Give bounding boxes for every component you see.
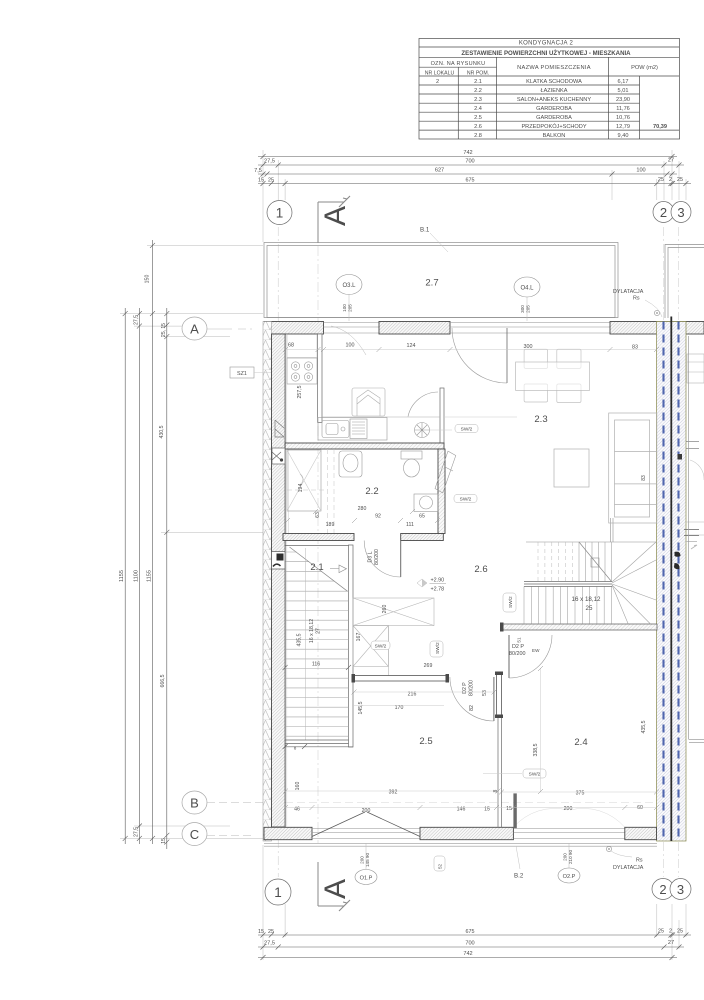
bathroom dashed soffit lines (287, 449, 334, 533)
staircase 2.1 top edge (285, 545, 348, 547)
svg-text:GARDEROBA: GARDEROBA (536, 106, 572, 112)
svg-text:675: 675 (466, 929, 475, 935)
svg-text:1: 1 (276, 205, 284, 220)
svg-text:1100: 1100 (133, 570, 139, 582)
grid bubble B (182, 791, 656, 814)
svg-text:2: 2 (669, 929, 672, 935)
door to 2.5 leaf and swing (450, 677, 494, 721)
svg-text:257,5: 257,5 (297, 385, 303, 398)
svg-text:92: 92 (375, 514, 381, 520)
svg-text:ZESTAWIENIE POWIERZCHNI UŻYTKO: ZESTAWIENIE POWIERZCHNI UŻYTKOWEJ - MIES… (461, 50, 631, 57)
toilet (401, 451, 422, 477)
svg-text:205: 205 (526, 305, 531, 313)
svg-text:27: 27 (316, 628, 322, 634)
svg-text:100: 100 (346, 343, 355, 349)
room 2.5 top wall (352, 674, 450, 683)
top exterior wall segment window 124 (379, 322, 450, 335)
meter box on wall (272, 552, 286, 570)
kitchen appliance (fridge) (350, 419, 367, 439)
svg-text:216: 216 (408, 692, 417, 698)
svg-text:+2.90: +2.90 (431, 578, 445, 584)
section line A-A bottom marker (318, 862, 352, 911)
svg-text:1: 1 (274, 885, 282, 900)
section line A-A top marker (318, 196, 352, 243)
svg-text:Rs: Rs (636, 858, 643, 864)
svg-text:70,39: 70,39 (653, 124, 667, 130)
window tag O4.L (514, 277, 540, 321)
svg-text:2: 2 (660, 205, 667, 220)
bathroom bottom wall right segment (401, 534, 444, 541)
svg-text:194: 194 (298, 484, 304, 493)
top exterior wall segment left (264, 322, 324, 335)
svg-text:25: 25 (268, 178, 274, 184)
bottom dim line 15/25/675/25/2/25 (258, 933, 691, 938)
svg-text:16 x 18,12: 16 x 18,12 (309, 619, 315, 643)
svg-text:10,76: 10,76 (616, 115, 630, 121)
wall tags SW/2 (371, 425, 546, 779)
svg-text:80/200: 80/200 (374, 549, 380, 565)
svg-text:9,40: 9,40 (618, 133, 629, 139)
svg-text:2.4: 2.4 (474, 106, 482, 112)
washing machine (414, 494, 438, 512)
void over stair (crossed) (353, 598, 434, 626)
svg-text:145,5: 145,5 (358, 701, 364, 714)
svg-text:27,5: 27,5 (133, 827, 139, 837)
svg-text:D2 P: D2 P (512, 644, 524, 650)
bottom exterior wall segment middle (420, 827, 513, 839)
svg-text:200: 200 (360, 856, 365, 864)
staircase 2.1 right wall (349, 545, 354, 747)
grid bubble 3 top (671, 202, 691, 223)
svg-text:5,01: 5,01 (618, 88, 629, 94)
floor zone line living room (444, 416, 517, 418)
svg-text:51: 51 (517, 637, 522, 643)
neighbour wall fragment lower right (689, 336, 704, 743)
svg-text:627: 627 (435, 168, 444, 174)
svg-text:D3 L: D3 L (368, 551, 374, 562)
svg-text:15: 15 (161, 838, 167, 844)
balcony B.1 label (420, 227, 448, 253)
bathroom bottom wall left segment (283, 534, 354, 541)
svg-text:25: 25 (268, 929, 274, 935)
svg-text:SW/2: SW/2 (529, 772, 541, 778)
svg-text:145 90: 145 90 (365, 853, 370, 867)
grid line 2 dashes above/below wall (664, 227, 679, 877)
left exterior wall (272, 334, 286, 827)
svg-text:435,5: 435,5 (297, 633, 303, 646)
svg-text:+2.78: +2.78 (431, 587, 445, 593)
staircase 2.1 treads (285, 591, 348, 736)
left dim line 1155 (outer) (123, 308, 128, 844)
leader for B.2 (516, 846, 520, 869)
svg-text:260: 260 (382, 605, 388, 614)
svg-text:205: 205 (348, 304, 353, 312)
kitchen stove (287, 358, 317, 384)
svg-text:210 90: 210 90 (568, 850, 573, 864)
svg-text:2.3: 2.3 (534, 414, 547, 425)
duct niche wall (440, 388, 444, 443)
svg-text:2.6: 2.6 (474, 564, 487, 575)
svg-text:27,5: 27,5 (264, 941, 275, 947)
svg-text:O4.L: O4.L (520, 286, 534, 292)
svg-text:160: 160 (295, 782, 301, 791)
svg-text:SZ1: SZ1 (237, 371, 247, 377)
top exterior wall segment right (610, 322, 704, 335)
left dim line 25,15/430,5/666,5/15 (164, 308, 169, 849)
svg-text:2.4: 2.4 (574, 737, 587, 748)
shower (287, 450, 321, 511)
niche boundary line (322, 416, 440, 418)
neighbour balcony railing right (665, 245, 704, 319)
svg-text:POW (m2): POW (m2) (631, 65, 658, 71)
svg-text:300: 300 (524, 344, 533, 350)
svg-text:O3.L: O3.L (342, 283, 356, 289)
svg-text:63: 63 (315, 512, 321, 518)
svg-text:16 x 18,12: 16 x 18,12 (572, 596, 601, 603)
svg-text:742: 742 (463, 150, 472, 156)
svg-text:NR LOKALU: NR LOKALU (425, 70, 455, 76)
top dimension extension lines (263, 150, 686, 242)
window 300 to balcony (450, 323, 610, 334)
left wall finish lines (287, 334, 289, 827)
extractor fan symbol (415, 423, 453, 438)
svg-text:Rs: Rs (633, 296, 640, 302)
wall tag SZ1 (230, 367, 271, 378)
svg-text:3: 3 (677, 882, 684, 897)
corridor void dims (356, 605, 432, 669)
svg-text:SW/2: SW/2 (508, 596, 514, 608)
dining chairs (524, 349, 581, 402)
grid bubble 1 top (267, 201, 292, 225)
kitchen counter with sink (318, 418, 387, 441)
svg-text:B.2: B.2 (514, 873, 524, 880)
svg-text:B: B (190, 795, 199, 810)
svg-text:170: 170 (395, 705, 404, 711)
kitchen corner marks (275, 420, 284, 437)
svg-text:6,17: 6,17 (618, 79, 629, 85)
svg-text:SW/2: SW/2 (461, 427, 473, 433)
svg-text:BALKON: BALKON (543, 133, 566, 139)
leader endpoint circle bottom (606, 846, 611, 851)
svg-text:2.1: 2.1 (474, 79, 482, 85)
svg-text:430,5: 430,5 (159, 425, 165, 438)
window tag O3.L (336, 275, 362, 322)
door D2 at stair tag (509, 637, 540, 657)
neighbour unit fragment mid right (684, 530, 699, 550)
window O1.P swing lines (312, 812, 420, 837)
svg-text:2.5: 2.5 (474, 115, 482, 121)
roller tag at O1.P (434, 856, 445, 871)
stair 2.6 bottom wall (500, 623, 657, 632)
svg-text:60: 60 (637, 805, 643, 811)
staircase 2.1 break line (290, 547, 348, 591)
grid bubble 2 bottom (652, 879, 674, 900)
void lower part (crossed) (353, 626, 388, 681)
svg-text:666,5: 666,5 (160, 674, 166, 687)
svg-text:SW/2: SW/2 (460, 497, 472, 503)
svg-text:2.5: 2.5 (419, 736, 432, 747)
svg-text:1155: 1155 (147, 570, 153, 582)
svg-text:3: 3 (677, 205, 684, 220)
wall fixture bathroom (272, 448, 285, 464)
coffee table (554, 449, 589, 487)
svg-text:675: 675 (466, 178, 475, 184)
svg-text:SW/2: SW/2 (435, 642, 441, 654)
room area table (419, 39, 680, 140)
svg-text:8: 8 (294, 746, 297, 751)
svg-text:C: C (190, 827, 199, 842)
svg-text:15: 15 (258, 929, 264, 935)
interior dim lines room 2.5/2.4 (285, 668, 656, 808)
section line A-A through plan (317, 246, 319, 843)
svg-text:392: 392 (389, 790, 398, 796)
bathroom right wall (438, 449, 445, 534)
grid line 1 (dash-dot vertical) (277, 227, 279, 877)
svg-text:2.6: 2.6 (474, 124, 482, 130)
window O2.P swing arcs (513, 808, 624, 827)
svg-text:SW/2: SW/2 (375, 644, 387, 650)
kitchen block right wall (318, 334, 322, 422)
svg-text:B.1: B.1 (420, 227, 430, 234)
door D2 at stair leaf and swing (509, 635, 552, 678)
svg-text:25, 15: 25, 15 (161, 323, 167, 337)
svg-text:100: 100 (636, 168, 645, 174)
svg-text:GARDEROBA: GARDEROBA (536, 115, 572, 121)
svg-text:NR POM.: NR POM. (467, 70, 489, 76)
svg-text:DYLATACJA: DYLATACJA (613, 865, 644, 871)
balcony B.2 slab (264, 844, 657, 847)
room 2.5 dims (294, 692, 490, 815)
grid bubble 2 top (653, 202, 674, 223)
svg-text:2: 2 (659, 882, 666, 897)
svg-text:150: 150 (145, 275, 151, 284)
svg-text:435,5: 435,5 (641, 720, 647, 733)
svg-text:100: 100 (342, 304, 347, 312)
staircase 2.1 bottom edge (285, 740, 353, 747)
svg-text:A: A (190, 321, 199, 336)
svg-text:23,90: 23,90 (616, 97, 630, 103)
svg-text:2.1: 2.1 (310, 562, 323, 573)
window tag O1.P (355, 843, 377, 885)
svg-text:52: 52 (438, 863, 443, 869)
svg-text:PRZEDPOKÓJ+SCHODY: PRZEDPOKÓJ+SCHODY (521, 123, 586, 130)
svg-text:742: 742 (463, 951, 472, 957)
svg-text:OZN. NA RYSUNKU: OZN. NA RYSUNKU (431, 61, 486, 67)
svg-text:O2.P: O2.P (563, 874, 576, 880)
svg-text:2.8: 2.8 (474, 133, 482, 139)
level marks (417, 578, 446, 593)
balcony door swing (331, 326, 366, 355)
staircase 2.1 walking line (305, 548, 307, 740)
staircase 2.6 side lines (526, 518, 657, 542)
svg-text:1155: 1155 (119, 570, 125, 582)
svg-text:DYLATACJA: DYLATACJA (613, 289, 644, 295)
svg-text:ŁAZIENKA: ŁAZIENKA (540, 88, 567, 94)
window O2.P opening (513, 829, 624, 839)
room 2.4 dims (493, 720, 647, 812)
svg-text:2.2: 2.2 (365, 486, 378, 497)
svg-text:KONDYGNACJA 2: KONDYGNACJA 2 (519, 41, 574, 47)
svg-text:53: 53 (482, 690, 488, 696)
dining table (516, 362, 590, 390)
svg-text:25: 25 (658, 177, 664, 183)
svg-text:A: A (319, 879, 352, 899)
svg-text:15: 15 (506, 806, 512, 812)
balcony door 100 (top wall opening) (324, 323, 380, 334)
svg-text:15: 15 (258, 178, 264, 184)
TV panel on wall (435, 451, 456, 494)
svg-text:83: 83 (641, 475, 647, 481)
svg-text:338,5: 338,5 (533, 743, 539, 756)
interior dim line under top wall (283, 347, 659, 352)
window tag O2.P (558, 843, 580, 883)
kitchen tall cabinet (287, 335, 317, 358)
svg-text:SALON+ANEKS KUCHENNY: SALON+ANEKS KUCHENNY (517, 97, 591, 103)
svg-text:83: 83 (632, 345, 638, 351)
staircase 2.6 upper treads solid (579, 542, 612, 582)
window O1.P opening (312, 829, 420, 839)
bathroom sink (339, 451, 362, 477)
grid bubble C (182, 823, 252, 846)
svg-text:7,5: 7,5 (254, 168, 262, 174)
staircase 2.6 break diagonal (579, 542, 612, 582)
svg-text:116: 116 (312, 662, 320, 668)
bottom dim line 742 (258, 955, 677, 960)
table header text (425, 41, 658, 77)
niche door arc (408, 392, 438, 417)
svg-text:27,5: 27,5 (264, 159, 275, 165)
svg-text:82: 82 (469, 705, 475, 711)
staircase 2.6 winder treads (612, 542, 656, 624)
left dim line 27,5/1100/27,5 (137, 308, 142, 844)
svg-text:700: 700 (465, 159, 474, 165)
svg-text:111: 111 (406, 522, 414, 528)
svg-text:2.2: 2.2 (474, 88, 482, 94)
bottom dimension extension lines (263, 845, 686, 960)
grid bubble A (182, 317, 252, 340)
stair 2.1 width dim ticks (283, 665, 351, 749)
interior top dim labels (288, 343, 638, 351)
staircase 2.1 labels (294, 562, 324, 751)
svg-text:KLATKA SCHODOWA: KLATKA SCHODOWA (526, 79, 582, 85)
bathroom top wall (285, 443, 444, 449)
staircase 2.6 lower treads (524, 587, 612, 624)
hinge dot on expansion joint (678, 454, 683, 460)
bathroom dim texts (298, 484, 425, 528)
top dimension line 15/25/675/25/2/25 (258, 181, 691, 186)
svg-text:2.7: 2.7 (425, 278, 438, 289)
svg-text:68: 68 (288, 343, 294, 349)
partition wall 2.5/2.4 (495, 672, 503, 828)
left dimension extension lines (120, 245, 283, 838)
svg-text:280: 280 (358, 506, 367, 512)
svg-text:12,79: 12,79 (616, 124, 630, 130)
svg-text:NAZWA POMIESZCZENIA: NAZWA POMIESZCZENIA (517, 65, 591, 71)
svg-text:300: 300 (520, 305, 525, 313)
door D3 tag (368, 549, 381, 565)
svg-text:124: 124 (407, 343, 416, 349)
svg-text:2.3: 2.3 (474, 97, 482, 103)
svg-text:A: A (319, 206, 352, 226)
balcony B.1 railing (264, 243, 618, 318)
bottom dylatacja note (611, 851, 644, 871)
svg-text:200: 200 (563, 853, 568, 861)
svg-text:25: 25 (677, 929, 683, 935)
svg-text:375: 375 (576, 791, 585, 797)
svg-text:200: 200 (362, 808, 371, 814)
svg-text:2: 2 (436, 79, 439, 85)
svg-text:EW: EW (532, 648, 540, 653)
svg-text:2: 2 (669, 177, 672, 183)
bottom dim line 27,5/700/27 (258, 945, 684, 950)
bottom exterior wall segment right (625, 827, 657, 839)
svg-text:65: 65 (419, 514, 425, 520)
staircase 2.1 direction arrow (330, 565, 347, 573)
right exterior wall with expansion joint (657, 317, 687, 842)
svg-text:25: 25 (677, 177, 683, 183)
svg-text:27: 27 (668, 940, 674, 946)
leader endpoint circle top (654, 310, 659, 315)
top dimension line 7,5 / 627 / 100 (258, 172, 677, 177)
svg-text:27,5: 27,5 (133, 315, 139, 325)
svg-text:700: 700 (465, 941, 474, 947)
neighbour door handle marks (674, 552, 681, 569)
bathroom dim ticks (285, 509, 440, 523)
svg-text:O1.P: O1.P (360, 876, 373, 882)
grid bubble 1 bottom (265, 879, 291, 905)
left dim line 150/1155 (150, 240, 155, 844)
svg-text:167: 167 (356, 633, 362, 642)
svg-text:269: 269 (424, 663, 433, 669)
table data rows (436, 79, 667, 139)
sofa (609, 413, 657, 523)
staircase 2.6 mid landing rail (524, 558, 612, 587)
grid bubble 3 bottom (670, 879, 691, 900)
left exterior wall insulation (263, 322, 272, 842)
dim ticks rooms (283, 666, 659, 810)
svg-text:25: 25 (586, 605, 593, 612)
staircase 2.1 upper treads (285, 552, 334, 581)
svg-text:25: 25 (658, 929, 664, 935)
staircase 2.6 upper treads dashed (538, 542, 573, 582)
bottom exterior wall segment left (264, 827, 312, 839)
svg-text:27: 27 (668, 158, 674, 164)
balcony door swing at window 300 (452, 328, 507, 383)
top dimension line 27,5 / 700 / 27 (258, 163, 684, 168)
dylatacja note top (613, 289, 662, 317)
svg-text:80/200: 80/200 (509, 651, 526, 657)
svg-text:11,76: 11,76 (616, 106, 630, 112)
armchair in living room (352, 388, 385, 416)
door to 2.5 tag (462, 680, 488, 711)
svg-text:200: 200 (564, 806, 573, 812)
door D3 leaf and swing (364, 541, 401, 578)
svg-text:80/200: 80/200 (469, 680, 475, 696)
svg-text:189: 189 (326, 522, 335, 528)
neighbour unit fragment top right (686, 354, 704, 535)
window pier 2.4 (513, 793, 516, 828)
top dimension line 742 (258, 154, 677, 159)
staircase 2.6 labels (572, 596, 601, 612)
